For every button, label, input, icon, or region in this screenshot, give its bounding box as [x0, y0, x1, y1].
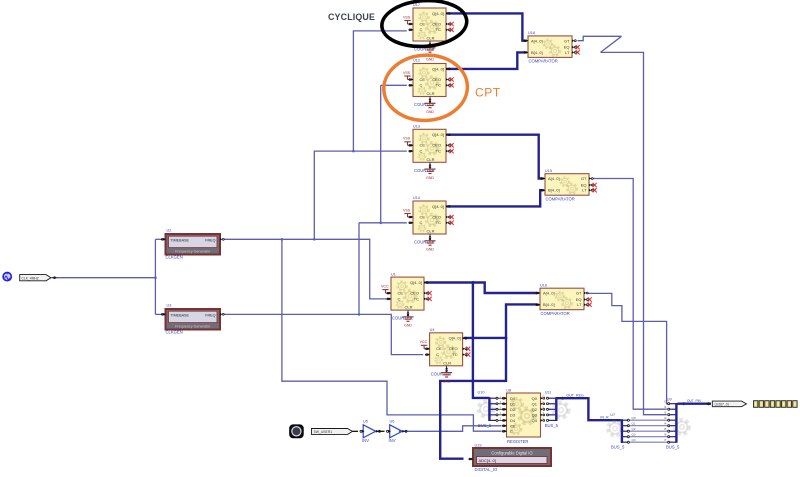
svg-text:BUS_5: BUS_5	[478, 423, 492, 428]
svg-text:B[4..0]: B[4..0]	[531, 50, 543, 55]
svg-text:LT: LT	[577, 302, 582, 307]
annotation ellipse CPT	[382, 53, 469, 122]
wire: FREQ2 net (clock B)	[225, 314, 424, 354]
svg-text:C: C	[420, 149, 423, 154]
svg-text:CEO: CEO	[410, 291, 419, 296]
svg-text:VSS: VSS	[403, 208, 411, 212]
svg-text:U14: U14	[413, 196, 420, 200]
bus splitter U10	[478, 390, 507, 427]
svg-text:CE: CE	[420, 143, 426, 148]
svg-text:Q[4..0]: Q[4..0]	[432, 204, 444, 209]
svg-text:TC: TC	[436, 149, 441, 154]
frequency generator U3	[161, 303, 224, 334]
svg-text:Q[4..0]: Q[4..0]	[432, 11, 444, 16]
svg-text:REGISTER: REGISTER	[507, 439, 528, 444]
svg-text:CLR: CLR	[404, 305, 412, 310]
svg-text:LT: LT	[565, 50, 570, 55]
svg-text:U9: U9	[667, 398, 672, 402]
svg-text:U15: U15	[545, 169, 552, 173]
svg-text:U5: U5	[363, 419, 368, 423]
svg-text:U17: U17	[413, 3, 420, 7]
wire: inverter chain to register CE	[399, 426, 502, 432]
svg-text:B[4..0]: B[4..0]	[543, 302, 555, 307]
svg-text:Q4: Q4	[632, 438, 636, 442]
svg-text:CEO: CEO	[432, 143, 441, 148]
svg-text:CLR: CLR	[426, 36, 434, 41]
svg-text:CLKGEN: CLKGEN	[166, 329, 183, 334]
svg-text:ADC[4..0]: ADC[4..0]	[479, 458, 496, 463]
counter U12	[403, 59, 454, 107]
comparator U16	[535, 283, 591, 316]
counter U13	[403, 125, 454, 173]
bus: counter2 Q to comparator1 B	[447, 52, 526, 69]
bus splitter U7	[608, 413, 636, 450]
svg-text:GND: GND	[426, 176, 434, 180]
svg-text:TC: TC	[414, 296, 419, 301]
svg-text:GND: GND	[426, 58, 434, 62]
wire: inverter1 to inverter2	[377, 430, 385, 432]
svg-text:I7: I7	[664, 438, 667, 442]
svg-text:VSS: VSS	[403, 15, 411, 19]
svg-text:CLKGEN: CLKGEN	[166, 254, 183, 259]
svg-text:Q0: Q0	[632, 416, 636, 420]
svg-text:EQ: EQ	[564, 45, 570, 50]
svg-text:U2: U2	[167, 228, 172, 232]
svg-text:VCC: VCC	[420, 340, 428, 344]
bus: joiner U9 output to LED port	[678, 403, 712, 405]
svg-text:Q[4..0]: Q[4..0]	[410, 280, 422, 285]
counter U1	[381, 272, 432, 320]
svg-text:Q4: Q4	[532, 418, 538, 423]
svg-text:CLR: CLR	[443, 360, 451, 365]
svg-text:BUS_5: BUS_5	[545, 423, 559, 428]
svg-text:U7: U7	[610, 413, 615, 417]
svg-text:Q1: Q1	[532, 401, 538, 406]
svg-text:BUS_5: BUS_5	[666, 445, 680, 450]
svg-text:Frequency Generator: Frequency Generator	[175, 325, 211, 329]
svg-text:D4: D4	[510, 418, 516, 423]
svg-text:CEO: CEO	[432, 21, 441, 26]
wire: port to inverter1	[353, 430, 359, 432]
svg-text:COMPARATOR: COMPARATOR	[541, 311, 570, 316]
svg-text:U3: U3	[167, 303, 172, 307]
svg-text:TIMEBASE: TIMEBASE	[170, 314, 189, 318]
bus: counter4 Q to comparator2 B	[447, 190, 543, 206]
comparator U15	[540, 169, 596, 202]
inverter U5	[360, 419, 381, 442]
svg-text:Q1: Q1	[632, 422, 636, 426]
svg-text:CYCLIQUE: CYCLIQUE	[328, 12, 375, 22]
svg-text:Q2: Q2	[532, 407, 538, 412]
svg-text:CE: CE	[398, 291, 404, 296]
svg-text:EQ: EQ	[581, 182, 587, 187]
svg-text:GT: GT	[581, 176, 587, 181]
svg-text:EQ: EQ	[576, 297, 582, 302]
svg-text:CEO: CEO	[449, 346, 458, 351]
svg-text:CEO: CEO	[432, 77, 441, 82]
svg-text:Frequency Generator: Frequency Generator	[175, 250, 211, 254]
svg-text:I5: I5	[664, 427, 667, 431]
svg-text:I6: I6	[664, 433, 667, 437]
svg-text:CE: CE	[420, 214, 426, 219]
svg-text:INV: INV	[389, 438, 396, 443]
svg-text:A[4..0]: A[4..0]	[548, 176, 560, 181]
svg-text:COMPARATOR: COMPARATOR	[546, 197, 575, 202]
svg-text:D2: D2	[510, 407, 516, 412]
svg-text:TIMEBASE: TIMEBASE	[170, 239, 189, 243]
svg-text:Q0: Q0	[532, 396, 538, 401]
wire: FREQ1 net (clock A)	[225, 239, 387, 299]
bus: counter5 Q to comparator3 A	[425, 283, 537, 294]
annotation ellipse CYCLIQUE	[380, 0, 468, 49]
bus: counter3 Q to comparator2 A	[447, 135, 543, 179]
bus: counter6 Q joining comparator3 B net	[464, 337, 506, 339]
svg-text:U4: U4	[430, 328, 435, 332]
svg-text:TC: TC	[436, 220, 441, 225]
svg-text:A[4..0]: A[4..0]	[543, 291, 555, 296]
svg-text:GND: GND	[426, 110, 434, 114]
svg-text:FREQ: FREQ	[205, 239, 215, 243]
svg-text:D3: D3	[510, 412, 516, 417]
svg-text:B[4..0]: B[4..0]	[548, 188, 560, 193]
push button icon	[290, 425, 304, 438]
svg-text:CLR: CLR	[426, 229, 434, 234]
svg-text:Q[4..0]: Q[4..0]	[432, 66, 444, 71]
svg-text:VSS: VSS	[403, 71, 411, 75]
svg-text:TC: TC	[436, 83, 441, 88]
svg-text:CE: CE	[420, 21, 426, 26]
wires: splitter U7 outputs to joiner U9	[630, 419, 668, 421]
bus: register output to splitter U7	[556, 398, 621, 420]
svg-text:C: C	[420, 220, 423, 225]
svg-text:COMPARATOR: COMPARATOR	[529, 59, 558, 64]
svg-text:TC: TC	[452, 352, 457, 357]
svg-text:A[4..0]: A[4..0]	[531, 38, 543, 43]
svg-text:U1: U1	[391, 272, 396, 276]
svg-text:CLR: CLR	[426, 157, 434, 162]
svg-text:C: C	[436, 352, 439, 357]
counter U14	[403, 196, 454, 244]
svg-text:OUT_REG: OUT_REG	[566, 394, 584, 398]
svg-text:FREQ: FREQ	[205, 314, 215, 318]
svg-text:C: C	[398, 296, 401, 301]
svg-text:U19: U19	[475, 443, 482, 447]
svg-text:I4: I4	[664, 422, 667, 426]
svg-text:INV: INV	[362, 438, 369, 443]
svg-text:Configurable Digital IO: Configurable Digital IO	[491, 451, 532, 456]
svg-text:CE: CE	[436, 346, 442, 351]
svg-text:Q3: Q3	[532, 412, 538, 417]
clock source icon	[3, 273, 11, 281]
wire: comparator2 GT to bus joiner I1	[594, 179, 667, 410]
LED bank	[754, 401, 798, 408]
bus joiner U9	[664, 398, 689, 450]
wire: counter4 C from FREQ2 riser	[359, 222, 407, 224]
frequency generator U2	[161, 228, 224, 259]
bus: counter5 Q branch down to register input splitter	[473, 283, 490, 398]
configurable digital IO U19	[468, 443, 551, 472]
svg-text:U8: U8	[506, 388, 511, 392]
svg-text:Q2: Q2	[632, 427, 636, 431]
svg-text:C: C	[420, 27, 423, 32]
svg-text:LED[7..0]: LED[7..0]	[715, 402, 729, 406]
svg-text:D0: D0	[510, 396, 516, 401]
svg-text:C: C	[420, 83, 423, 88]
svg-text:GND: GND	[426, 248, 434, 252]
svg-text:GND: GND	[443, 379, 451, 383]
bus joiner U11	[545, 390, 569, 427]
svg-text:U18: U18	[528, 31, 535, 35]
svg-text:SW_USER1: SW_USER1	[314, 430, 333, 434]
wire: counter2 / counter4 C net	[381, 84, 407, 86]
bus: counter1 Q to comparator1 A	[447, 13, 526, 40]
port SW_USER1	[312, 429, 353, 435]
svg-text:OUT_PIN: OUT_PIN	[687, 399, 702, 403]
svg-text:GT: GT	[576, 291, 582, 296]
svg-text:U13: U13	[413, 125, 420, 129]
svg-text:VSS: VSS	[403, 137, 411, 141]
svg-text:DIGITAL_IO: DIGITAL_IO	[475, 467, 498, 472]
port CLK input	[20, 275, 51, 281]
register U8	[500, 388, 546, 443]
svg-text:GND: GND	[404, 324, 412, 328]
svg-text:CE: CE	[420, 77, 426, 82]
svg-text:I3: I3	[664, 416, 667, 420]
svg-text:Q[4..0]: Q[4..0]	[432, 132, 444, 137]
wire: comparator1 GT to bus joiner I2	[578, 36, 622, 40]
svg-text:U11: U11	[545, 390, 552, 394]
comparator U18	[523, 31, 579, 64]
svg-text:C: C	[510, 429, 513, 434]
svg-text:GT: GT	[564, 38, 570, 43]
svg-text:CE: CE	[510, 423, 516, 428]
svg-text:CPT: CPT	[475, 86, 501, 100]
wire: comparator3 GT to bus joiner I0	[588, 293, 668, 403]
svg-text:D1: D1	[510, 401, 516, 406]
svg-text:U6: U6	[390, 419, 395, 423]
svg-text:BUS_5: BUS_5	[611, 445, 625, 450]
wire: FREQ1 branch up to counter C inputs	[314, 151, 407, 239]
counter U4	[420, 328, 471, 376]
counter U17	[403, 3, 454, 51]
wire: clock input to freq generators	[52, 277, 59, 279]
svg-text:U16: U16	[540, 283, 547, 287]
port LED[7..0]	[708, 401, 747, 407]
svg-text:IN_R: IN_R	[600, 416, 609, 420]
svg-text:LT: LT	[582, 188, 587, 193]
svg-text:CLR: CLR	[426, 91, 434, 96]
svg-text:Q[4..0]: Q[4..0]	[449, 336, 461, 341]
svg-text:U10: U10	[478, 390, 485, 394]
svg-text:CLK_4MHZ: CLK_4MHZ	[22, 276, 39, 280]
inverter U6	[387, 419, 408, 442]
wire: FREQ1 branch down to register C	[282, 239, 502, 431]
bus: comparator3 B net down to digital IO	[440, 304, 537, 458]
wire: counter1 C net	[353, 31, 406, 151]
svg-text:VCC: VCC	[381, 284, 389, 288]
svg-text:TC: TC	[436, 27, 441, 32]
svg-text:U12: U12	[413, 59, 420, 63]
svg-text:CEO: CEO	[432, 214, 441, 219]
svg-text:Q3: Q3	[632, 433, 636, 437]
